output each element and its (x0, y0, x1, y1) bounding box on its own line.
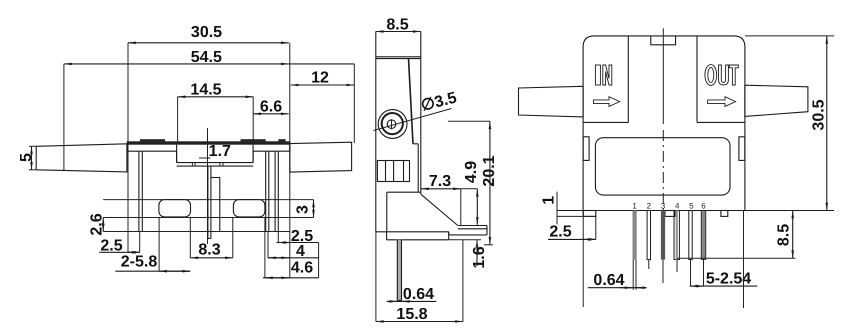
gasket nub far right (278, 139, 285, 141)
dimension 2.5 left (99, 232, 140, 255)
pedestal left (583, 211, 596, 217)
right leg b (275, 151, 278, 231)
dimension 4 (268, 232, 319, 261)
svg-text:8.3: 8.3 (198, 242, 220, 259)
svg-text:20.1: 20.1 (481, 155, 498, 186)
reference line y=231.5 (103, 231, 290, 233)
svg-text:5: 5 (18, 153, 35, 162)
dimension 6.6 (253, 98, 289, 115)
pin 1 (633, 211, 637, 290)
body outline (583, 36, 745, 211)
dimension 2.6 (88, 213, 105, 235)
dimension 30.5 (128, 24, 289, 43)
dimension 2.5 (right view) (548, 216, 596, 241)
body band outline (127, 141, 289, 162)
dimension 20.1 (448, 121, 498, 245)
svg-text:15.8: 15.8 (396, 306, 427, 323)
center pin (208, 166, 220, 238)
label plate (595, 138, 730, 195)
body top bar (127, 141, 289, 144)
dimension 12 (291, 70, 355, 87)
svg-text:7.3: 7.3 (429, 173, 451, 190)
reference line y=217.5 (103, 217, 313, 219)
center line (207, 128, 209, 244)
reference line y=199.6 (103, 199, 313, 201)
left tube (36, 144, 127, 172)
side pin (397, 240, 401, 301)
dimension 5 (18, 146, 36, 170)
svg-text:54.5: 54.5 (191, 49, 222, 66)
lower block (376, 192, 487, 235)
svg-text:14.5: 14.5 (190, 82, 221, 99)
svg-text:1.6: 1.6 (471, 246, 488, 268)
port crosshair (391, 119, 393, 129)
dimension 4.9 (461, 161, 480, 225)
dimension 30.5 (right view) (811, 36, 828, 211)
pedestal bottom tick (557, 215, 596, 217)
dimension 4.6 (263, 217, 319, 278)
extension line x=63.9 (63, 64, 65, 170)
svg-text:5-2.54: 5-2.54 (706, 271, 751, 288)
svg-text:3: 3 (295, 205, 312, 214)
body top extension (745, 35, 834, 37)
gasket nub right (241, 139, 266, 141)
vent strips box (377, 161, 409, 182)
svg-text:2.5: 2.5 (549, 223, 571, 240)
pins bottom reference line (677, 257, 795, 259)
left tube (519, 86, 584, 117)
svg-text:1: 1 (632, 202, 637, 211)
pin 5 (689, 211, 692, 260)
dimension 1.7 (199, 143, 231, 160)
dimension 8.5 (right view) (776, 210, 793, 258)
svg-text:30.5: 30.5 (811, 99, 828, 130)
left leg (139, 151, 142, 231)
center block (177, 145, 254, 166)
dimension 0.64 (right view) (588, 272, 647, 289)
port hole (387, 120, 396, 129)
svg-text:8.5: 8.5 (776, 224, 793, 246)
extension line x=354.3 (353, 64, 355, 143)
svg-text:0.64: 0.64 (593, 272, 624, 289)
right foot (233, 200, 265, 217)
dimension 15.8 (376, 232, 463, 323)
IN panel edge (627, 36, 629, 123)
svg-text:5: 5 (689, 202, 694, 211)
extension lines 14.5 (177, 97, 179, 142)
base plate (387, 232, 449, 240)
svg-text:4.9: 4.9 (463, 161, 480, 183)
right tube (290, 142, 352, 172)
OUT panel edge (696, 36, 698, 123)
svg-text:1.7: 1.7 (209, 143, 231, 160)
dimension 1.6 (449, 240, 488, 269)
pin 6 (701, 211, 706, 260)
pin 3 (661, 211, 665, 284)
svg-text:4: 4 (675, 202, 680, 211)
panel bottom left (583, 121, 628, 123)
gasket nub left (140, 139, 165, 141)
left foot (159, 200, 191, 217)
dim bracket vertical right (318, 243, 320, 278)
IN arrow (594, 97, 620, 107)
dimension 8.5 top (376, 17, 421, 34)
long extension x=289.8 (289, 43, 291, 278)
block bottom ticks (192, 163, 223, 167)
port outer circle (378, 110, 407, 139)
svg-text:2-5.8: 2-5.8 (121, 254, 158, 271)
svg-text:6.6: 6.6 (260, 98, 282, 115)
dimension 2.5 right (277, 228, 319, 245)
pin 4 (674, 211, 679, 273)
dimension 3 (295, 200, 314, 218)
OUT arrow (708, 97, 736, 107)
svg-text:2: 2 (647, 202, 652, 211)
svg-text:12: 12 (311, 70, 329, 87)
svg-text:6: 6 (701, 202, 706, 211)
svg-text:1: 1 (541, 196, 558, 205)
inner edge thick (409, 59, 419, 193)
svg-text:30.5: 30.5 (191, 24, 222, 41)
center line vertical (662, 28, 664, 124)
svg-text:3: 3 (661, 202, 666, 211)
dimension 5-2.54 (690, 260, 758, 288)
svg-text:0.64: 0.64 (403, 286, 434, 303)
extension line x=128 (127, 43, 129, 253)
top cap (376, 32, 421, 232)
port ring thick (382, 113, 403, 134)
OUT label (705, 65, 738, 86)
leader diameter 3.5 (374, 89, 459, 130)
pin 2 (647, 211, 650, 270)
dimension 0.64 (side) (387, 286, 437, 303)
dimension 8.3 (190, 217, 233, 259)
right leg a (266, 151, 269, 231)
IN label (595, 65, 611, 85)
panel bottom right (697, 121, 745, 123)
dimension 7.3 (421, 173, 461, 226)
extension body right edge down (743, 210, 745, 308)
body bottom line (557, 210, 834, 212)
right clip (739, 137, 745, 161)
dimension 14.5 (178, 82, 254, 99)
dimension 54.5 (64, 49, 354, 66)
dimension 2-5.8 (115, 217, 190, 271)
top tab (651, 36, 676, 45)
left clip (583, 137, 589, 161)
right tube (745, 85, 808, 116)
pedestal right (721, 211, 728, 217)
pedestal mid (665, 211, 675, 217)
svg-text:4.6: 4.6 (291, 259, 313, 276)
